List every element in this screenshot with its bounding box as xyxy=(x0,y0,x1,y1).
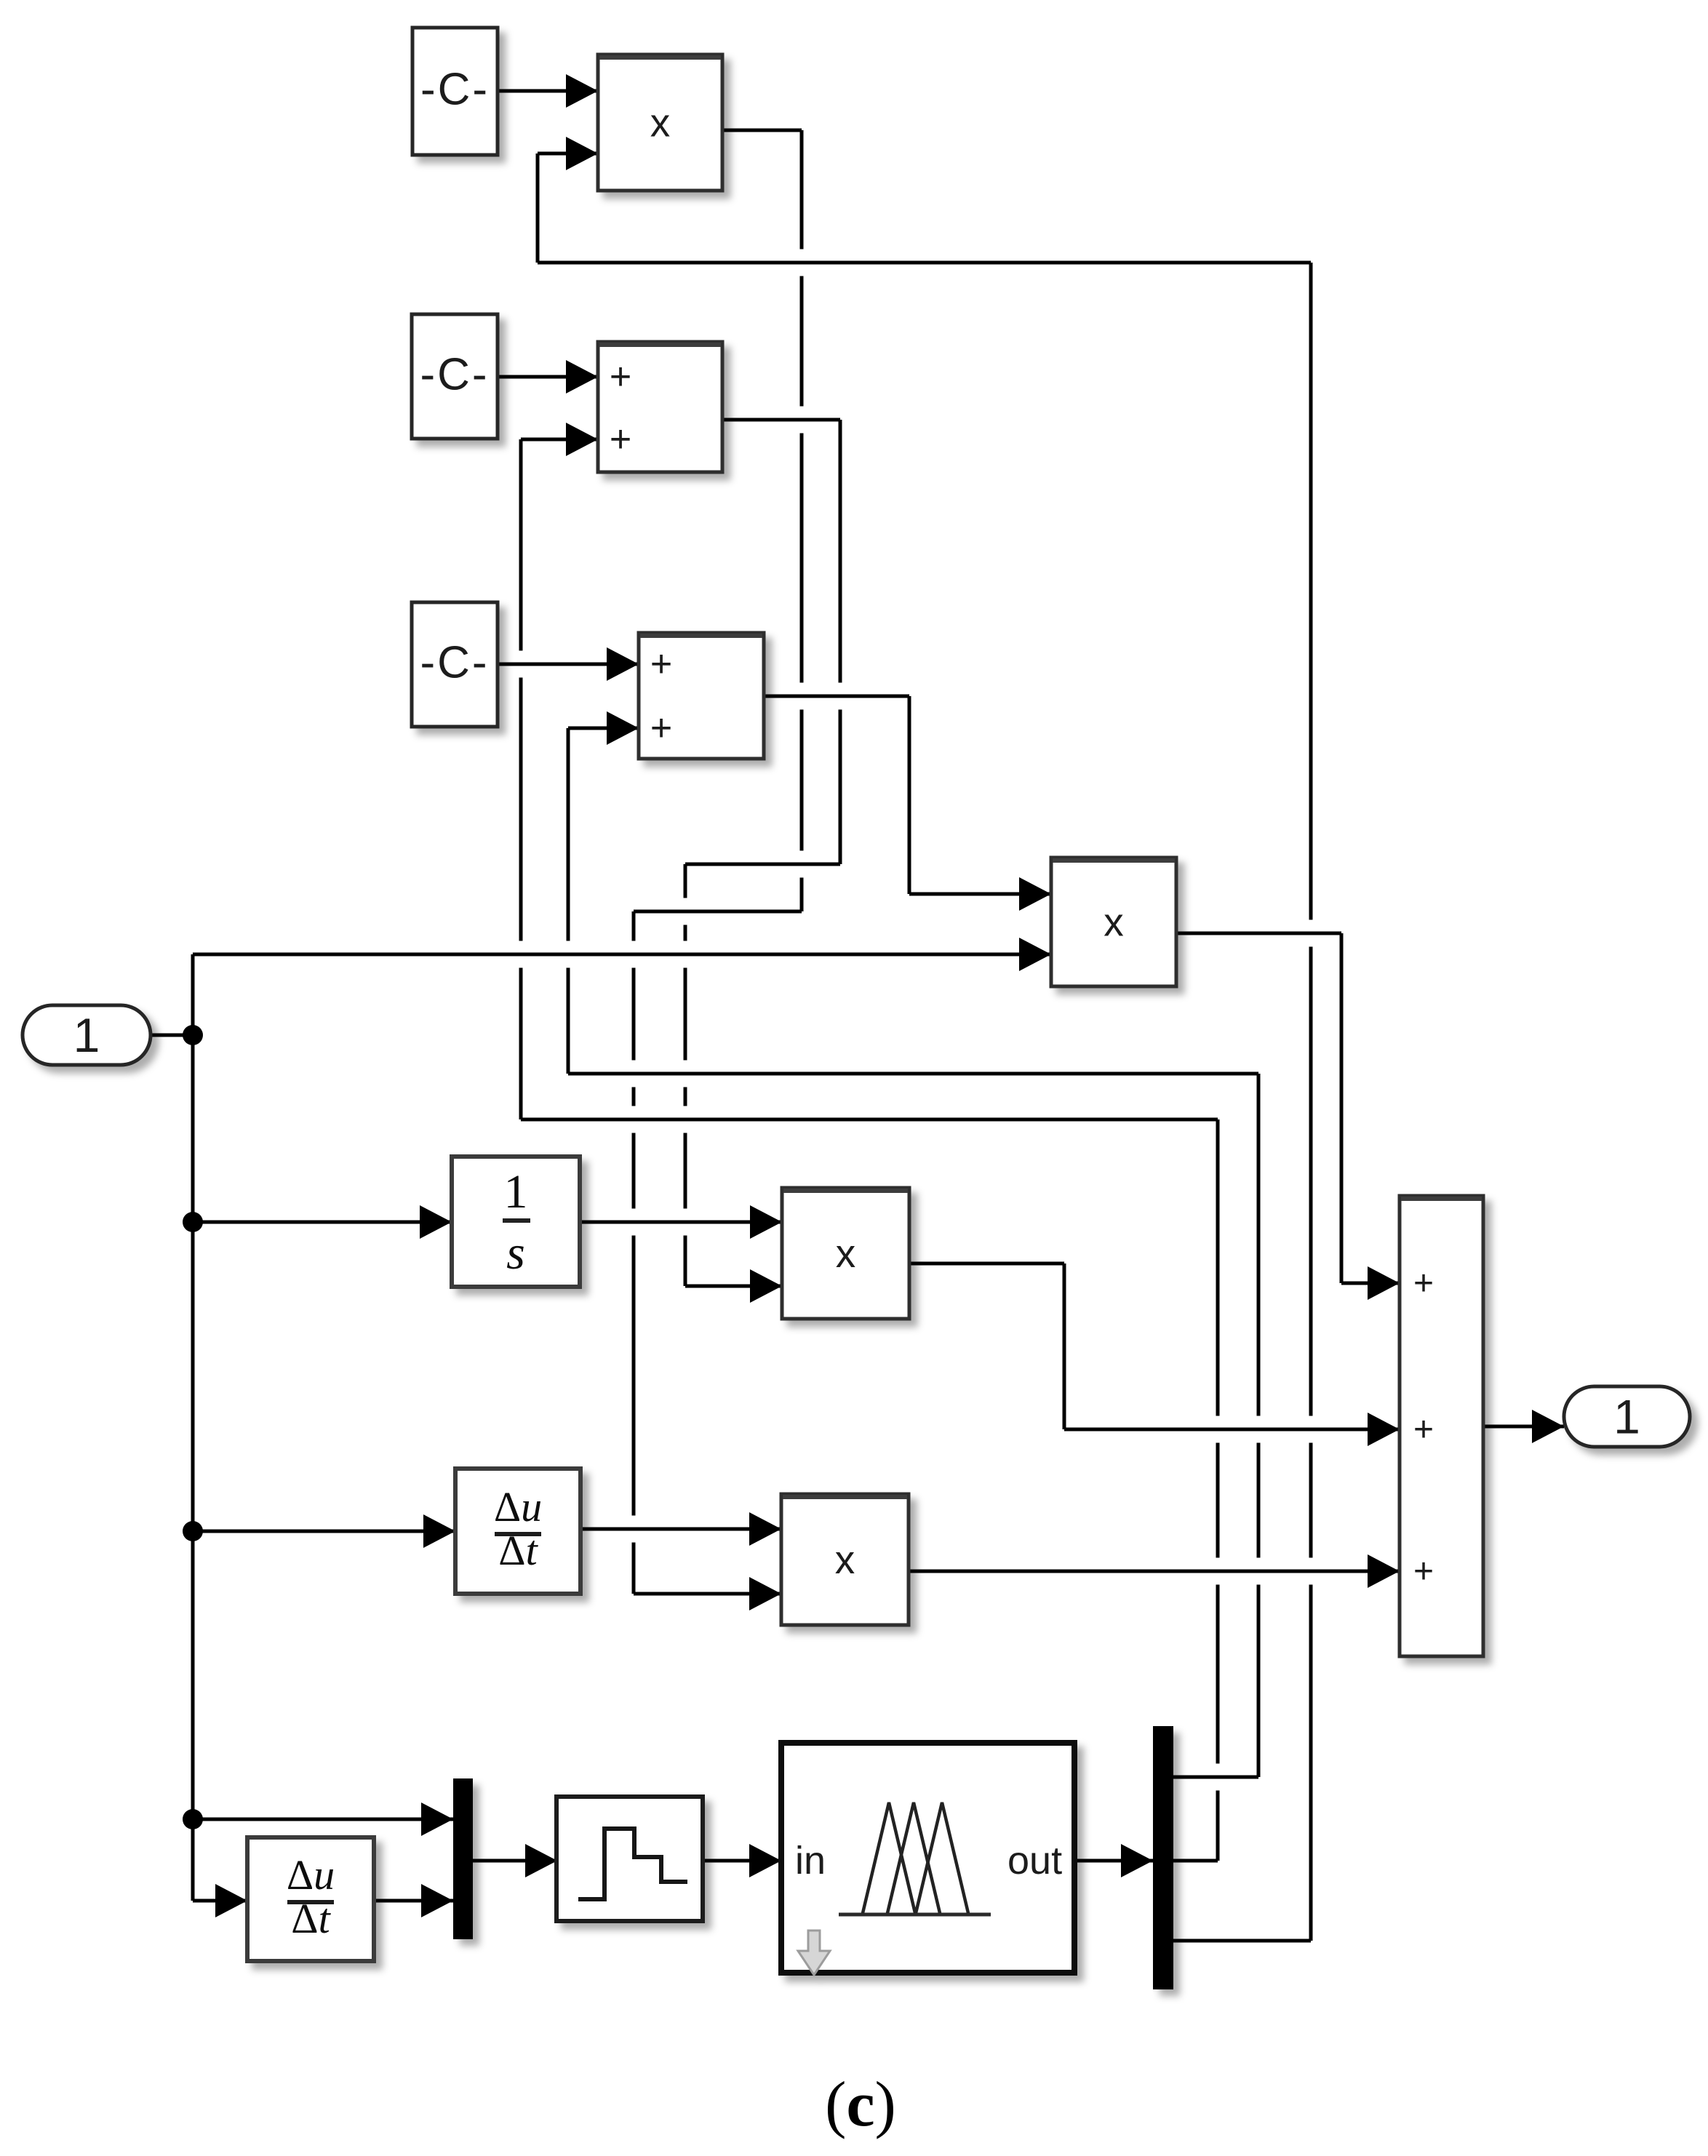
svg-text:1: 1 xyxy=(73,1008,100,1062)
svg-text:+: + xyxy=(1413,1552,1434,1591)
svg-text:(c): (c) xyxy=(825,2069,896,2140)
svg-text:Δt: Δt xyxy=(498,1527,538,1574)
svg-text:1: 1 xyxy=(1613,1390,1640,1444)
svg-text:x: x xyxy=(835,1537,855,1582)
svg-text:Δu: Δu xyxy=(494,1483,542,1530)
svg-text:Δu: Δu xyxy=(287,1851,335,1899)
svg-text:+: + xyxy=(650,643,672,685)
svg-text:s: s xyxy=(506,1226,525,1279)
svg-text:out: out xyxy=(1007,1839,1062,1882)
svg-text:x: x xyxy=(836,1231,856,1276)
svg-text:-C-: -C- xyxy=(420,638,489,688)
svg-text:in: in xyxy=(795,1839,826,1882)
svg-text:+: + xyxy=(1413,1264,1434,1303)
svg-text:x: x xyxy=(1104,900,1124,945)
svg-text:+: + xyxy=(1413,1410,1434,1449)
svg-text:-C-: -C- xyxy=(420,65,490,115)
svg-text:x: x xyxy=(650,100,671,145)
svg-text:+: + xyxy=(650,707,672,749)
svg-text:-C-: -C- xyxy=(420,350,489,400)
svg-text:+: + xyxy=(610,418,631,460)
svg-text:1: 1 xyxy=(504,1165,528,1218)
svg-text:+: + xyxy=(610,356,631,398)
svg-text:Δt: Δt xyxy=(291,1895,331,1942)
